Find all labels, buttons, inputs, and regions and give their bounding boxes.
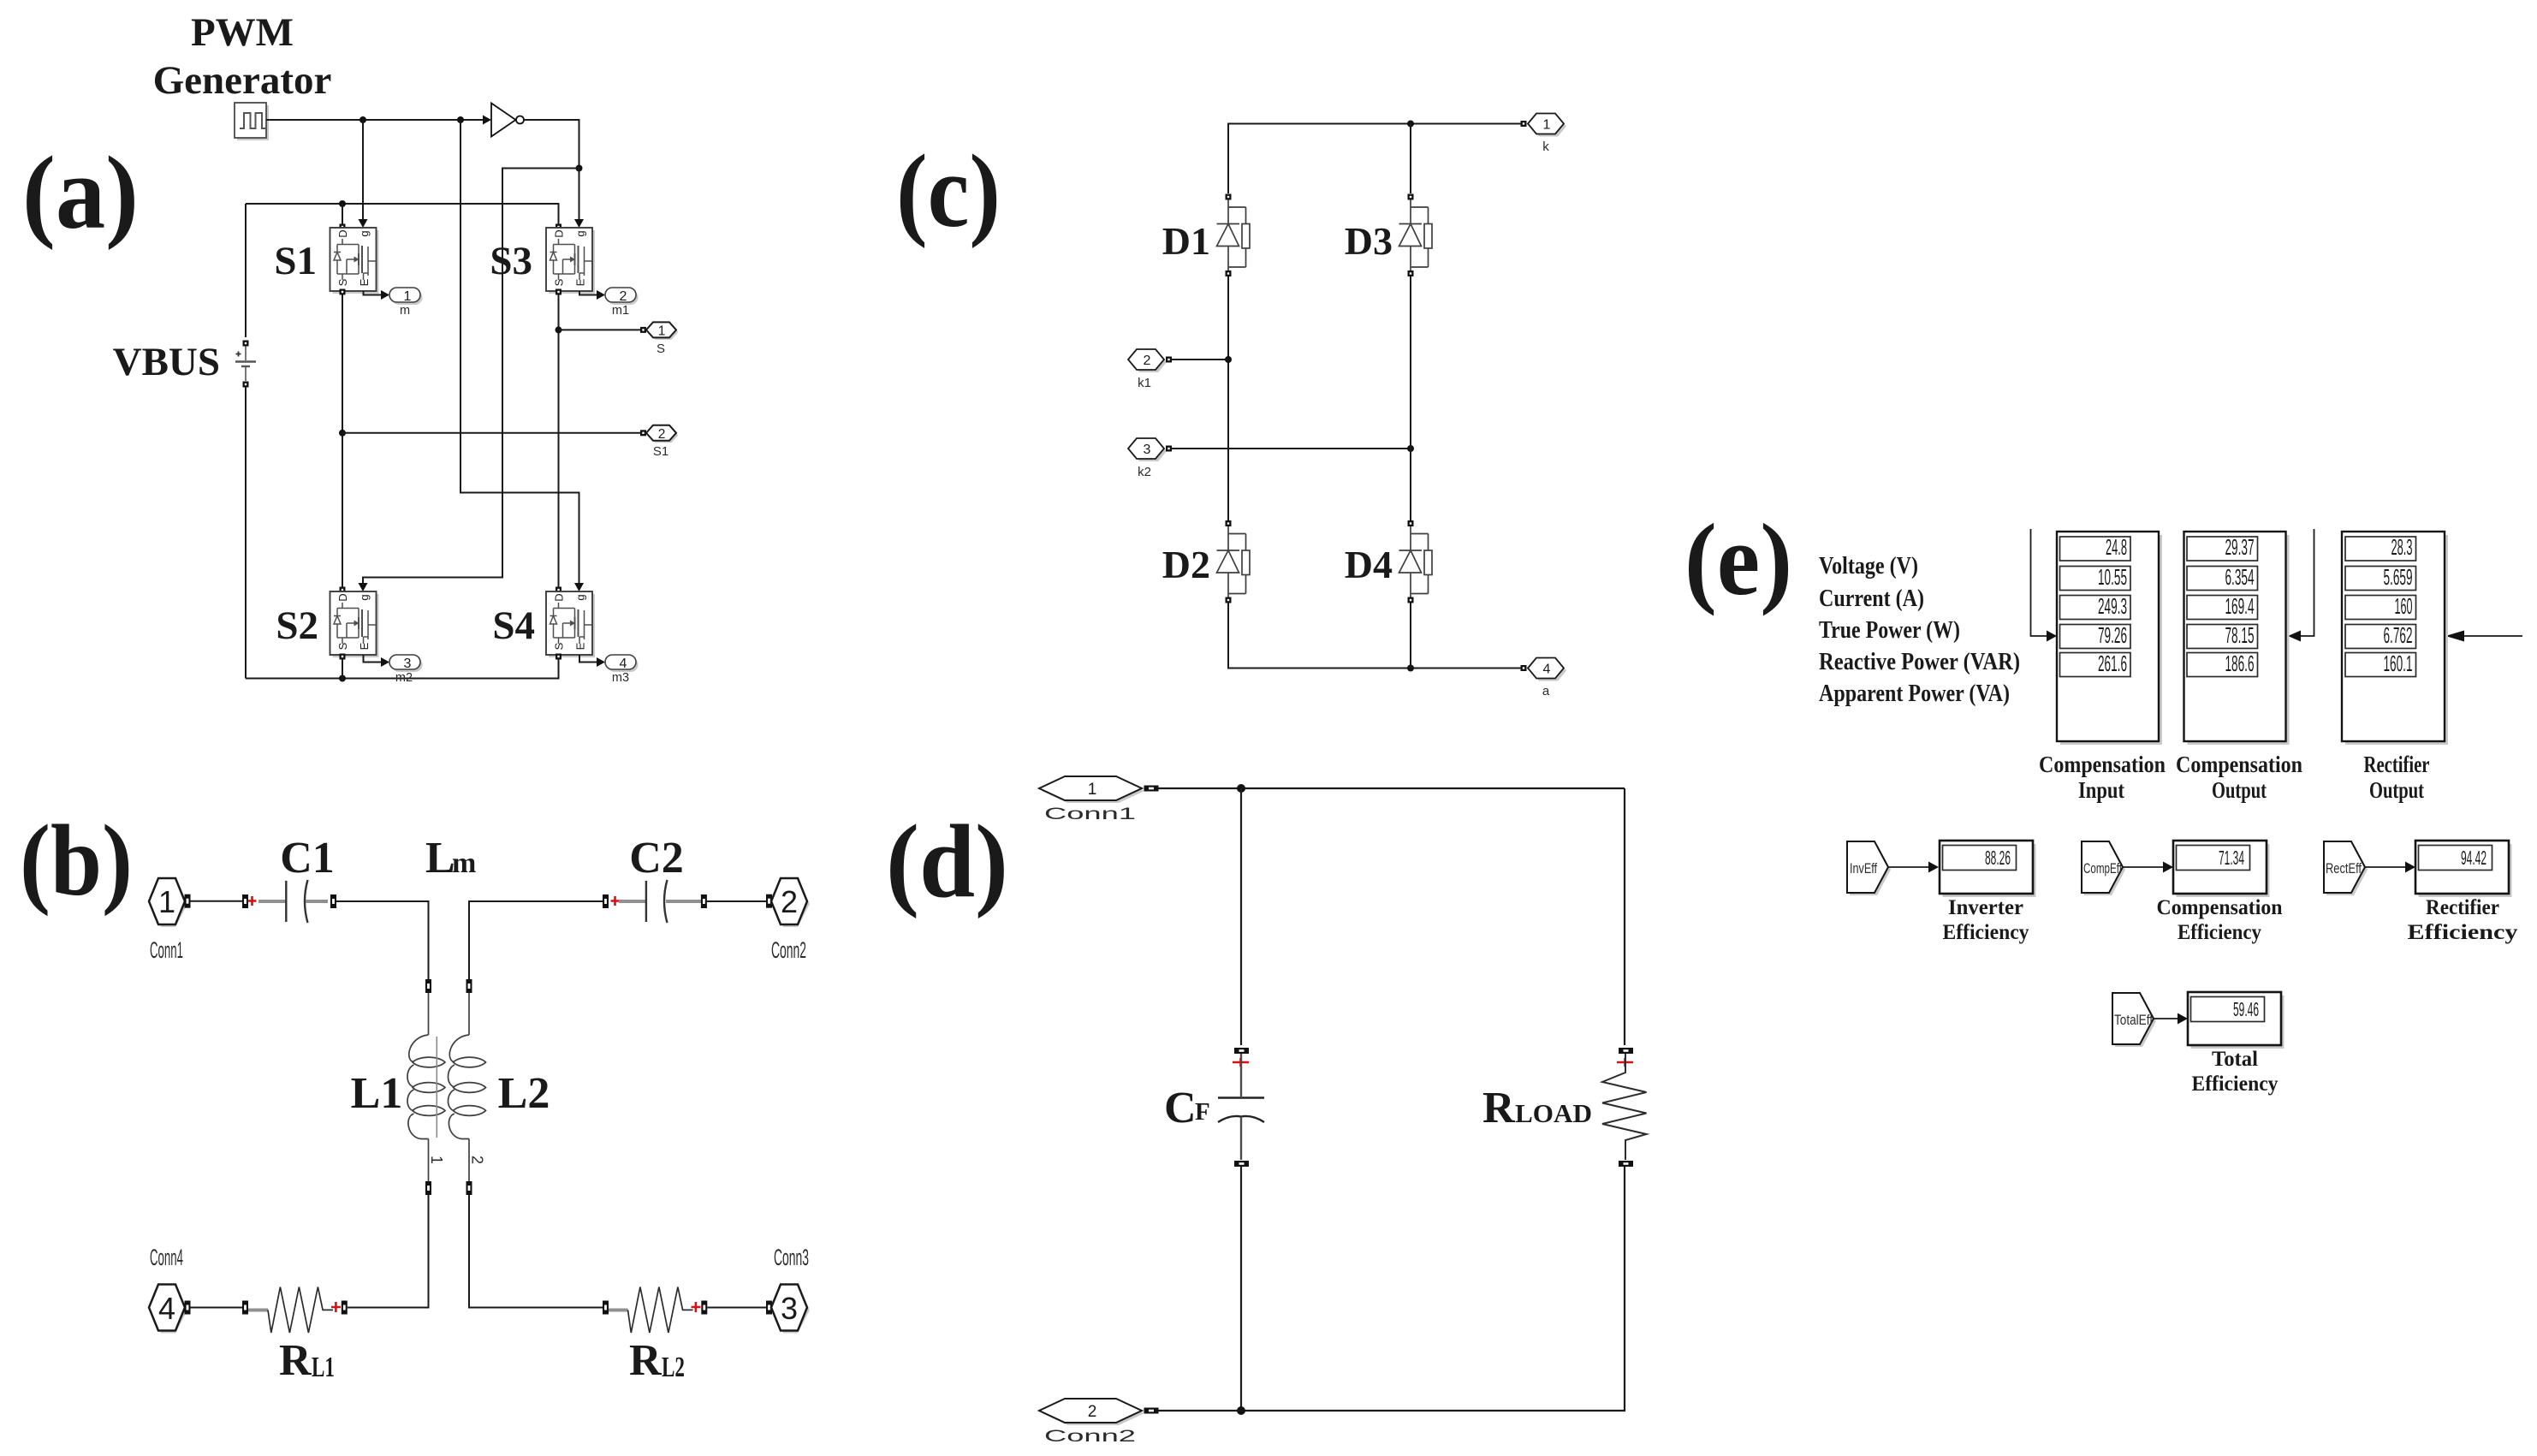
svg-text:78.15: 78.15 xyxy=(2225,622,2255,648)
wire NOT gate output xyxy=(524,120,579,169)
wire transformer L2 top to C2 xyxy=(469,901,603,979)
svg-text:D1: D1 xyxy=(1162,219,1210,263)
wire RL1 to Conn4 xyxy=(191,1307,243,1309)
svg-text:C2: C2 xyxy=(629,834,684,883)
wire D4 to bottom bus xyxy=(1410,603,1411,669)
svg-text:3: 3 xyxy=(781,1291,798,1326)
svg-text:28.3: 28.3 xyxy=(2391,534,2413,560)
node junction S1-S2 midpoint to port S1 xyxy=(339,430,346,437)
node junction bottom bus CF xyxy=(1237,1406,1245,1415)
svg-text:Compensation: Compensation xyxy=(2039,752,2166,777)
node junction S3-S4 midpoint to port S xyxy=(556,326,562,333)
wire PWM to S4 gate xyxy=(460,120,579,583)
svg-text:2: 2 xyxy=(1088,1403,1097,1421)
diode D2 xyxy=(1217,520,1251,603)
svg-text:88.26: 88.26 xyxy=(1985,847,2011,869)
svg-text:6.354: 6.354 xyxy=(2225,564,2255,590)
svg-text:160.1: 160.1 xyxy=(2384,651,2413,676)
diode D3 xyxy=(1399,194,1433,277)
port 2 m1 xyxy=(605,288,639,305)
svg-text:L1: L1 xyxy=(312,1352,335,1383)
transformer core line xyxy=(436,1037,437,1138)
wire S2 E to port m2 xyxy=(364,655,382,663)
svg-text:(e): (e) xyxy=(1684,502,1792,616)
svg-text:(d): (d) xyxy=(886,804,1008,919)
wire L1 bottom to RL1 xyxy=(348,1195,429,1308)
svg-text:1: 1 xyxy=(1088,781,1097,799)
svg-text:k1: k1 xyxy=(1138,376,1151,390)
resistor RL1 xyxy=(242,1301,248,1315)
svg-text:D4: D4 xyxy=(1345,543,1393,586)
tag RectEff xyxy=(2324,841,2368,895)
wire into Compensation Output display xyxy=(2301,529,2314,636)
svg-text:(b): (b) xyxy=(20,804,133,917)
svg-text:m: m xyxy=(400,304,410,318)
svg-text:2: 2 xyxy=(469,1156,486,1164)
diode D1 xyxy=(1217,194,1251,277)
wire TotalEff to display xyxy=(2154,1018,2178,1019)
svg-text:VBUS: VBUS xyxy=(113,340,220,384)
svg-text:59.46: 59.46 xyxy=(2233,998,2259,1020)
wire S1 drain drop xyxy=(342,204,343,224)
svg-text:(c): (c) xyxy=(896,134,1001,249)
node junction on PWM line at S1 gate column xyxy=(359,116,366,123)
port k1 hexagon xyxy=(1128,349,1167,372)
port a hexagon xyxy=(1521,665,1527,671)
svg-text:PWM: PWM xyxy=(191,10,294,55)
svg-text:Total: Total xyxy=(2212,1048,2258,1071)
svg-text:Generator: Generator xyxy=(153,58,332,103)
wire S1 E to port m xyxy=(364,291,382,295)
port S1 hexagon xyxy=(640,430,646,436)
svg-text:L: L xyxy=(425,834,455,883)
svg-text:Output: Output xyxy=(2369,777,2424,803)
node junction bottom bus at S2 source xyxy=(339,675,346,682)
display Compensation Efficiency xyxy=(2173,841,2270,897)
svg-text:m2: m2 xyxy=(395,671,413,685)
wire RLOAD column xyxy=(1624,788,1625,1045)
wire bottom bus to Conn2 xyxy=(1159,1410,1242,1411)
resistor RLOAD xyxy=(1619,1048,1633,1054)
display Compensation Input xyxy=(2060,535,2162,745)
svg-text:71.34: 71.34 xyxy=(2219,847,2244,869)
svg-text:C1: C1 xyxy=(280,834,335,883)
port k hexagon xyxy=(1521,121,1527,127)
wire RectEff to display xyxy=(2365,866,2405,868)
resistor RL2 xyxy=(603,1301,609,1315)
wire CF to bottom bus xyxy=(1240,1167,1242,1411)
svg-text:29.37: 29.37 xyxy=(2225,534,2255,560)
wire midpoint to output port S1 xyxy=(342,432,640,434)
svg-text:1: 1 xyxy=(658,324,666,338)
tag InvEff xyxy=(1847,841,1891,895)
svg-text:Rectifier: Rectifier xyxy=(2364,752,2430,777)
wire into Rectifier Output display xyxy=(2464,635,2522,637)
port Conn1 hexagon xyxy=(1039,776,1144,803)
svg-text:Efficiency: Efficiency xyxy=(2178,921,2261,944)
svg-text:D2: D2 xyxy=(1162,543,1210,586)
svg-text:(a): (a) xyxy=(22,135,139,251)
svg-text:TotalEff: TotalEff xyxy=(2114,1012,2153,1028)
svg-text:10.55: 10.55 xyxy=(2098,564,2127,590)
svg-text:m: m xyxy=(452,847,476,879)
svg-text:S2: S2 xyxy=(276,603,318,648)
diode D4 xyxy=(1399,520,1433,603)
transistor S4 xyxy=(556,587,561,593)
svg-text:1: 1 xyxy=(1543,118,1551,133)
tag TotalEff xyxy=(2112,993,2156,1047)
wire C2 to Conn2 xyxy=(707,900,766,902)
svg-text:S: S xyxy=(657,342,665,356)
svg-text:C: C xyxy=(1164,1084,1197,1132)
wire into Compensation Input display xyxy=(2031,529,2047,636)
wire S3 source to S4 drain xyxy=(558,294,560,589)
wire RL2 to Conn3 xyxy=(707,1307,766,1309)
svg-text:1: 1 xyxy=(158,884,175,919)
display Total Efficiency xyxy=(2188,992,2284,1049)
wire left rail down to battery xyxy=(245,204,247,337)
display Inverter Efficiency xyxy=(1940,841,2036,897)
node junction bottom bus right column xyxy=(1407,665,1414,672)
wire top bus xyxy=(1228,124,1521,194)
NOT gate U1 xyxy=(483,116,491,125)
svg-text:Rectifier: Rectifier xyxy=(2426,896,2499,919)
port Conn2 hexagon xyxy=(766,894,772,908)
svg-text:4: 4 xyxy=(1543,663,1551,677)
wire PWM output to NOT gate input xyxy=(266,119,483,121)
PWM generator block xyxy=(237,105,269,140)
svg-text:2: 2 xyxy=(781,884,798,919)
svg-text:Conn1: Conn1 xyxy=(150,937,183,963)
svg-text:L2: L2 xyxy=(498,1069,550,1118)
svg-text:Conn2: Conn2 xyxy=(771,937,806,963)
wire right column drop to D3 xyxy=(1410,124,1411,194)
wire left rail battery to bottom bus xyxy=(245,388,247,679)
wire NOT output to S3 gate xyxy=(579,169,580,220)
svg-text:4: 4 xyxy=(620,657,627,671)
node junction k1 tap xyxy=(1225,356,1232,363)
svg-text:1: 1 xyxy=(428,1156,445,1164)
battery VBUS xyxy=(243,341,249,347)
svg-text:Conn2: Conn2 xyxy=(1044,1428,1136,1446)
svg-text:Efficiency: Efficiency xyxy=(1943,921,2029,944)
svg-text:R: R xyxy=(629,1336,662,1385)
wire D3 to D4 xyxy=(1410,276,1411,520)
port Conn1 hexagon xyxy=(149,878,187,927)
svg-text:Conn3: Conn3 xyxy=(774,1245,809,1270)
display Rectifier Efficiency xyxy=(2415,841,2512,897)
svg-text:Compensation: Compensation xyxy=(2157,896,2283,919)
node junction top bus at S1 drain xyxy=(339,200,346,207)
inductor L1 winding xyxy=(425,979,431,993)
wire PWM to S1 gate xyxy=(362,120,364,219)
wire S2 source to bottom bus xyxy=(342,658,343,679)
svg-text:2: 2 xyxy=(620,289,627,304)
svg-text:Voltage (V): Voltage (V) xyxy=(1819,553,1918,579)
port Conn2 hexagon xyxy=(1039,1399,1144,1425)
svg-text:L2: L2 xyxy=(662,1352,685,1383)
svg-text:InvEff: InvEff xyxy=(1850,860,1877,877)
svg-text:S1: S1 xyxy=(653,444,668,459)
wire CF column xyxy=(1240,788,1242,1045)
svg-text:LOAD: LOAD xyxy=(1515,1098,1592,1128)
svg-text:261.6: 261.6 xyxy=(2098,651,2127,676)
svg-text:6.762: 6.762 xyxy=(2384,622,2413,648)
svg-text:S3: S3 xyxy=(490,239,532,283)
svg-text:Current (A): Current (A) xyxy=(1819,585,1924,612)
wire bottom bus xyxy=(1228,603,1521,669)
svg-text:Efficiency: Efficiency xyxy=(2408,921,2519,944)
svg-text:Input: Input xyxy=(2078,777,2124,803)
port Conn3 hexagon xyxy=(766,1301,772,1315)
node junction NOT output branch xyxy=(576,165,583,172)
node junction top bus right column xyxy=(1407,121,1414,128)
port k2 hexagon xyxy=(1128,438,1167,461)
display Rectifier Output xyxy=(2345,535,2448,745)
port 3 m2 xyxy=(389,655,423,672)
svg-text:R: R xyxy=(1482,1084,1516,1132)
wire k1 to left column xyxy=(1172,359,1228,360)
transistor S1 xyxy=(340,224,346,230)
wire k2 to right column xyxy=(1172,448,1411,449)
svg-text:S4: S4 xyxy=(492,603,535,648)
svg-text:186.6: 186.6 xyxy=(2225,651,2255,676)
wire S3 E to port m1 xyxy=(579,291,597,295)
svg-text:m3: m3 xyxy=(612,671,629,685)
svg-text:CompEff: CompEff xyxy=(2083,860,2122,877)
svg-text:Output: Output xyxy=(2212,777,2267,803)
svg-text:160: 160 xyxy=(2395,593,2413,619)
svg-text:79.26: 79.26 xyxy=(2098,622,2127,648)
wire bottom bus xyxy=(246,658,559,679)
svg-text:94.42: 94.42 xyxy=(2461,847,2486,869)
transistor S2 xyxy=(340,587,346,593)
svg-text:D3: D3 xyxy=(1345,219,1393,263)
svg-text:k: k xyxy=(1542,140,1549,154)
svg-text:m1: m1 xyxy=(612,304,629,318)
svg-text:2: 2 xyxy=(1144,354,1151,368)
node junction on PWM line at S4 branch column xyxy=(457,116,464,123)
svg-text:169.4: 169.4 xyxy=(2225,593,2255,619)
inductor L2 winding xyxy=(466,979,472,993)
wire Conn1 to C1 xyxy=(191,900,243,902)
svg-text:249.3: 249.3 xyxy=(2098,593,2127,619)
wire top bus from left rail to S3 drain xyxy=(246,204,559,224)
svg-text:F: F xyxy=(1195,1098,1210,1126)
capacitor CF xyxy=(1234,1048,1249,1054)
svg-text:Compensation: Compensation xyxy=(2176,752,2302,777)
wire CompEff to display xyxy=(2123,866,2163,868)
svg-text:RectEff: RectEff xyxy=(2326,860,2362,877)
svg-text:Efficiency: Efficiency xyxy=(2192,1073,2279,1096)
node junction k2 tap xyxy=(1407,445,1414,452)
svg-text:3: 3 xyxy=(404,657,412,671)
wire S4 E to port m3 xyxy=(579,655,597,663)
svg-text:3: 3 xyxy=(1144,443,1151,457)
wire S1 source to S2 drain xyxy=(342,294,343,589)
wire RLOAD to bottom bus xyxy=(1241,1167,1625,1411)
wire NOT output to S2 gate xyxy=(363,169,579,584)
svg-text:a: a xyxy=(1542,684,1550,698)
port S hexagon xyxy=(640,327,646,333)
svg-text:2: 2 xyxy=(658,427,666,442)
port 1 m xyxy=(389,288,423,305)
port 4 m3 xyxy=(605,655,639,672)
svg-text:5.659: 5.659 xyxy=(2384,564,2413,590)
svg-text:Reactive Power (VAR): Reactive Power (VAR) xyxy=(1819,649,2020,675)
tag CompEff xyxy=(2082,841,2125,895)
node junction top bus CF xyxy=(1237,784,1245,793)
svg-text:Conn4: Conn4 xyxy=(150,1245,183,1270)
svg-text:4: 4 xyxy=(158,1291,175,1326)
port Conn4 hexagon xyxy=(149,1285,187,1334)
svg-text:Conn1: Conn1 xyxy=(1044,805,1136,823)
svg-text:S1: S1 xyxy=(274,239,317,283)
svg-text:24.8: 24.8 xyxy=(2106,534,2127,560)
transistor S3 xyxy=(556,224,561,230)
svg-text:R: R xyxy=(279,1336,312,1385)
svg-text:L1: L1 xyxy=(351,1069,403,1118)
wire D1 to D2 xyxy=(1227,276,1229,520)
svg-text:Apparent Power (VA): Apparent Power (VA) xyxy=(1819,680,2010,707)
wire top bus xyxy=(1159,787,1625,789)
svg-text:1: 1 xyxy=(404,289,412,304)
wire C1 to transformer L1 top xyxy=(336,901,429,979)
wire InvEff to display xyxy=(1888,866,1928,868)
svg-text:k2: k2 xyxy=(1138,465,1151,479)
wire L2 bottom to RL2 xyxy=(469,1195,603,1308)
display Compensation Output xyxy=(2188,535,2290,745)
wire midpoint to output port S xyxy=(559,329,641,330)
svg-text:Inverter: Inverter xyxy=(1948,896,2023,919)
svg-text:True Power (W): True Power (W) xyxy=(1819,617,1960,644)
